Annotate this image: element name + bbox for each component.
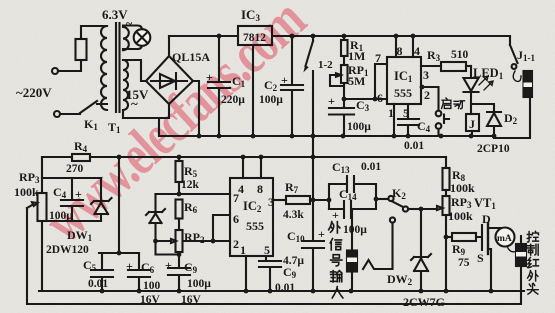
lamp loop wire (123, 26, 142, 50)
svg-text:16V: 16V (140, 294, 161, 306)
wire pin1 (245, 256, 247, 291)
IC2 555 (230, 178, 273, 256)
IC1 555 (387, 57, 421, 104)
+12V top rail (169, 35, 510, 37)
svg-text:8: 8 (257, 182, 263, 196)
potentiometer RP3 left (38, 193, 47, 221)
jack sleeve hook (363, 223, 393, 269)
IC3 7812 (238, 26, 272, 45)
svg-text:0.01: 0.01 (404, 140, 424, 152)
resistor R9 (446, 236, 452, 238)
resistor R3 (441, 62, 466, 71)
capacitor C4 lower (61, 178, 83, 221)
svg-text:510: 510 (451, 49, 469, 61)
svg-text:2DW120: 2DW120 (46, 244, 89, 256)
diode D2 2CP10 (471, 104, 501, 136)
svg-text:6: 6 (233, 212, 239, 226)
capacitor C5 (91, 253, 113, 291)
capacitor C3 (329, 83, 354, 136)
svg-text:2: 2 (424, 88, 430, 102)
junction dots lower (100, 155, 494, 294)
svg-text:2: 2 (233, 237, 239, 251)
capacitor C14 (329, 184, 376, 218)
wire pin7 pin6 (344, 64, 387, 99)
start button (422, 87, 439, 111)
svg-text:+: + (328, 94, 335, 108)
svg-text:5: 5 (264, 243, 270, 257)
svg-text:+: + (126, 259, 133, 273)
svg-text:7: 7 (375, 51, 381, 65)
watermark www.elecfans.com (32, 0, 318, 255)
svg-text:D: D (482, 212, 491, 226)
svg-text:QL15A: QL15A (172, 50, 210, 64)
svg-text:100µ: 100µ (347, 121, 371, 133)
capacitor C1 (208, 36, 230, 136)
svg-text:100k: 100k (14, 185, 39, 199)
label 6.3V (102, 7, 133, 30)
transformer 15V winding (123, 60, 128, 110)
transformer T1 primary winding (101, 26, 107, 110)
label ~220V (16, 85, 52, 100)
wire rail to C5 C6 (99, 157, 139, 253)
bridge rectifier QL15A (146, 56, 193, 104)
relay J (466, 114, 479, 131)
svg-text:~220V: ~220V (16, 85, 52, 100)
label 15V (126, 87, 149, 111)
capacitor C13 (329, 176, 376, 209)
wire 7812 gnd (252, 45, 254, 136)
meter mA (496, 228, 515, 247)
svg-text:100µ: 100µ (343, 224, 367, 236)
node line bottom DW1 (42, 220, 101, 222)
svg-text:~: ~ (131, 96, 138, 111)
switch J1-2 (306, 36, 314, 66)
svg-text:100k: 100k (448, 209, 473, 223)
svg-text:+: + (165, 258, 172, 272)
wire pin8 (260, 157, 262, 178)
svg-text:1-2: 1-2 (318, 59, 333, 71)
svg-text:270: 270 (66, 163, 84, 175)
svg-text:3: 3 (423, 68, 429, 82)
label control IR head (vertical) (527, 231, 538, 294)
label K1 (84, 117, 98, 132)
capacitor C10 (302, 241, 324, 291)
wire pin4 (412, 36, 414, 57)
mosfet VT1 (476, 225, 482, 250)
left rail (41, 157, 43, 291)
svg-text:+: + (281, 73, 288, 87)
svg-text:7: 7 (233, 191, 239, 205)
potentiometer RP2 (176, 230, 183, 252)
connector to relay contact (513, 71, 521, 81)
wire pin8 (395, 36, 397, 57)
potentiometer RP1 (343, 56, 345, 65)
zener mid (146, 194, 179, 255)
wire bridge minus (193, 81, 199, 136)
lamp (134, 29, 151, 46)
node wire pin7 (156, 193, 231, 195)
wire pin1 (393, 104, 395, 136)
wire pin3 to R3 (421, 65, 441, 67)
svg-text:5M: 5M (348, 74, 365, 88)
wiper wire RP2 (156, 239, 214, 243)
svg-text:4.3k: 4.3k (283, 209, 304, 221)
svg-text:555: 555 (394, 86, 412, 100)
label T1 (108, 120, 121, 135)
svg-text:75: 75 (458, 257, 470, 269)
wire K2 to RP3 wiper (421, 206, 443, 210)
transformer 6.3V winding (123, 27, 129, 50)
switch J1-1 (510, 36, 518, 63)
svg-text:~: ~ (126, 16, 133, 30)
svg-text:2CP10: 2CP10 (477, 143, 510, 155)
svg-text:6.3V: 6.3V (102, 7, 128, 22)
label QL15A (172, 50, 210, 64)
node line top DW1 (42, 177, 101, 179)
svg-text:2CW7G: 2CW7G (403, 295, 445, 309)
svg-text:+: + (206, 70, 213, 84)
wire 15V bottom to bridge (123, 104, 169, 136)
terminal upper 220V (52, 68, 58, 74)
switch K2 (376, 198, 388, 200)
resistor R1 (343, 36, 345, 40)
lower +12V rail (42, 156, 446, 158)
svg-text:S: S (477, 251, 484, 265)
svg-text:4.7µ: 4.7µ (283, 255, 304, 267)
switch K1 (60, 101, 107, 114)
svg-text:6: 6 (377, 91, 383, 105)
wire bridge plus up (168, 36, 170, 56)
svg-text:100µ: 100µ (259, 94, 283, 106)
wire pin6 pin2 (213, 215, 230, 241)
svg-text:1: 1 (240, 243, 246, 257)
wire terminal to fuse (58, 60, 81, 71)
svg-text:+: + (75, 187, 82, 201)
capacitor C9 right 0.01 (259, 256, 281, 291)
lower gnd rail (39, 290, 524, 292)
svg-text:100µ: 100µ (187, 278, 211, 290)
junction dots top (197, 34, 497, 139)
resistor R5 (178, 157, 180, 161)
zener DW2 2CW7G (411, 209, 431, 291)
zener DW1 2DW120 (91, 178, 112, 221)
svg-text:0.01: 0.01 (88, 278, 108, 290)
svg-text:0.01: 0.01 (361, 161, 381, 173)
svg-text:220µ: 220µ (221, 94, 245, 106)
resistor R4 (72, 154, 90, 161)
svg-text:12k: 12k (181, 179, 200, 191)
svg-text:100k: 100k (450, 181, 475, 195)
top gnd rail (159, 135, 494, 137)
resistor R6 (176, 200, 183, 219)
terminal lower 220V (54, 111, 60, 117)
svg-text:1M: 1M (348, 49, 365, 63)
wire rail to R8 (445, 157, 447, 168)
transformer core (116, 23, 120, 112)
svg-text:16V: 16V (181, 294, 202, 306)
potentiometer RP3 right (443, 196, 450, 215)
label external signal input (vertical) (329, 222, 343, 298)
svg-text:+: + (332, 208, 339, 222)
resistor R7 (286, 196, 310, 204)
svg-text:3: 3 (268, 195, 274, 209)
resistor R8 (443, 168, 450, 190)
svg-text:J: J (469, 117, 475, 131)
wiper wire to bottom line (27, 208, 521, 304)
label start button qidong (442, 98, 465, 109)
LED1 (470, 66, 472, 78)
svg-text:7812: 7812 (243, 32, 266, 44)
capacitor C2 (281, 36, 303, 136)
capacitor C6 (128, 253, 150, 291)
wire 15V top to bridge (123, 60, 146, 81)
svg-text:0.01: 0.01 (275, 282, 295, 294)
capacitor C4 (398, 104, 419, 136)
svg-text:mA: mA (497, 234, 512, 244)
svg-text:8: 8 (397, 44, 403, 58)
wire pin3 to R7 (273, 199, 286, 201)
capacitor C9 mid (168, 252, 190, 291)
svg-text:555: 555 (246, 219, 264, 233)
svg-text:+: + (318, 227, 325, 241)
meter lead (507, 246, 517, 252)
fuse (76, 39, 87, 60)
input jack (351, 209, 353, 250)
wire pin4 (242, 157, 244, 178)
IR head jack (516, 244, 526, 266)
svg-text:4: 4 (414, 44, 420, 58)
